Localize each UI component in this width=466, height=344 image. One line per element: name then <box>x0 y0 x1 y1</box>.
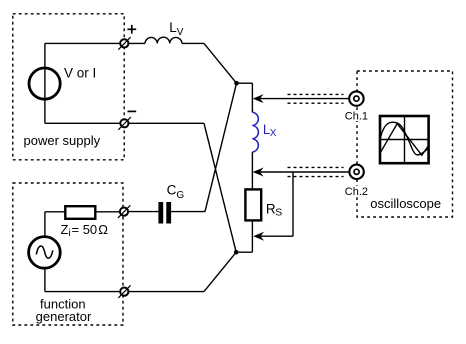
Ch.1 label <box>344 111 369 123</box>
wire Ch.2 branch vertical <box>292 172 294 236</box>
svg-text:oscilloscope: oscilloscope <box>370 196 441 211</box>
wire diagonal generator to node B <box>204 252 236 291</box>
minus polarity label <box>128 110 137 112</box>
wire CG to diagonal <box>171 211 205 213</box>
node B junction dot <box>234 250 239 255</box>
svg-text:= 50: = 50 <box>72 222 98 237</box>
coax shield dashes Ch.2 <box>288 167 344 176</box>
wire vertical bus bottom to node B <box>236 251 252 253</box>
wire generator return to diagonal <box>128 291 204 293</box>
wire generator to Zi <box>45 211 65 213</box>
resistor RS <box>245 189 261 220</box>
svg-text:G: G <box>176 190 184 201</box>
terminal minus <box>118 117 131 130</box>
resistor Zi <box>65 206 95 219</box>
wire vertical bus upper <box>251 83 253 112</box>
inductor LX (blue) <box>252 112 258 152</box>
wire diagonal CG to node A <box>205 83 237 211</box>
wire generator bottom riser <box>44 268 46 291</box>
wire diagonal LV to node A <box>204 43 237 83</box>
terminal generator return <box>118 285 130 298</box>
svg-text:Ch.2: Ch.2 <box>345 186 368 198</box>
source V or I <box>29 68 60 99</box>
screen graticule horizontal <box>380 139 429 141</box>
wire plus terminal to LV <box>128 42 145 44</box>
svg-text:i: i <box>69 228 71 239</box>
oscilloscope enclosure box <box>357 71 453 217</box>
wire Zi to generator terminal 1 <box>95 211 120 213</box>
node A junction dot <box>234 81 239 86</box>
Ch.2 label <box>344 186 369 198</box>
wire node A to vertical bus <box>237 82 253 84</box>
svg-text:V or I: V or I <box>64 65 96 80</box>
wire minus terminal horizontal <box>129 122 205 124</box>
connector Ch.2 <box>349 165 363 179</box>
wire terminal to CG <box>128 211 158 213</box>
terminal plus <box>118 37 130 50</box>
wire generator top riser <box>44 212 46 237</box>
power supply enclosure box <box>13 14 124 160</box>
coax shield dashes Ch.1 <box>288 94 344 103</box>
oscilloscope screen <box>380 116 429 163</box>
source function generator sine <box>29 237 61 269</box>
wire generator bottom <box>45 291 120 293</box>
svg-text:Z: Z <box>61 222 69 237</box>
function generator enclosure box <box>13 183 123 325</box>
inductor LV <box>145 37 182 43</box>
wire RS to node B <box>251 220 253 252</box>
resistor RS label <box>266 202 282 219</box>
capacitor CG <box>158 202 171 224</box>
wire source top to plus terminal <box>45 42 120 44</box>
svg-text:V: V <box>177 27 184 38</box>
svg-text:Ch.1: Ch.1 <box>345 111 368 123</box>
probe arrow Ch.1 <box>253 94 349 103</box>
plus polarity label <box>127 25 136 34</box>
capacitor CG label <box>167 182 185 201</box>
screen trace 2 <box>380 124 428 156</box>
resistor Zi value label <box>61 222 109 239</box>
svg-text:power supply: power supply <box>24 133 101 148</box>
svg-text:X: X <box>270 128 277 139</box>
svg-text:generator: generator <box>36 309 92 324</box>
terminal generator output <box>118 205 130 218</box>
screen trace 1 <box>380 122 428 155</box>
wire source bottom to minus terminal <box>45 122 120 124</box>
inductor LX label <box>263 122 277 139</box>
screen graticule vertical <box>404 116 406 163</box>
wire source vertical through circle <box>44 43 46 123</box>
wire LV to node A <box>182 42 204 44</box>
probe arrow RS bottom <box>253 232 293 241</box>
svg-text:S: S <box>275 206 282 218</box>
svg-text:Ω: Ω <box>98 222 108 237</box>
probe arrow Ch.2 <box>253 168 350 177</box>
sine symbol inside generator <box>36 246 53 258</box>
connector Ch.1 <box>349 91 363 105</box>
inductor LV label <box>169 20 184 38</box>
svg-text:C: C <box>167 182 177 197</box>
wire LX to RS <box>251 152 253 189</box>
wire diagonal minus terminal to node B <box>204 123 236 252</box>
